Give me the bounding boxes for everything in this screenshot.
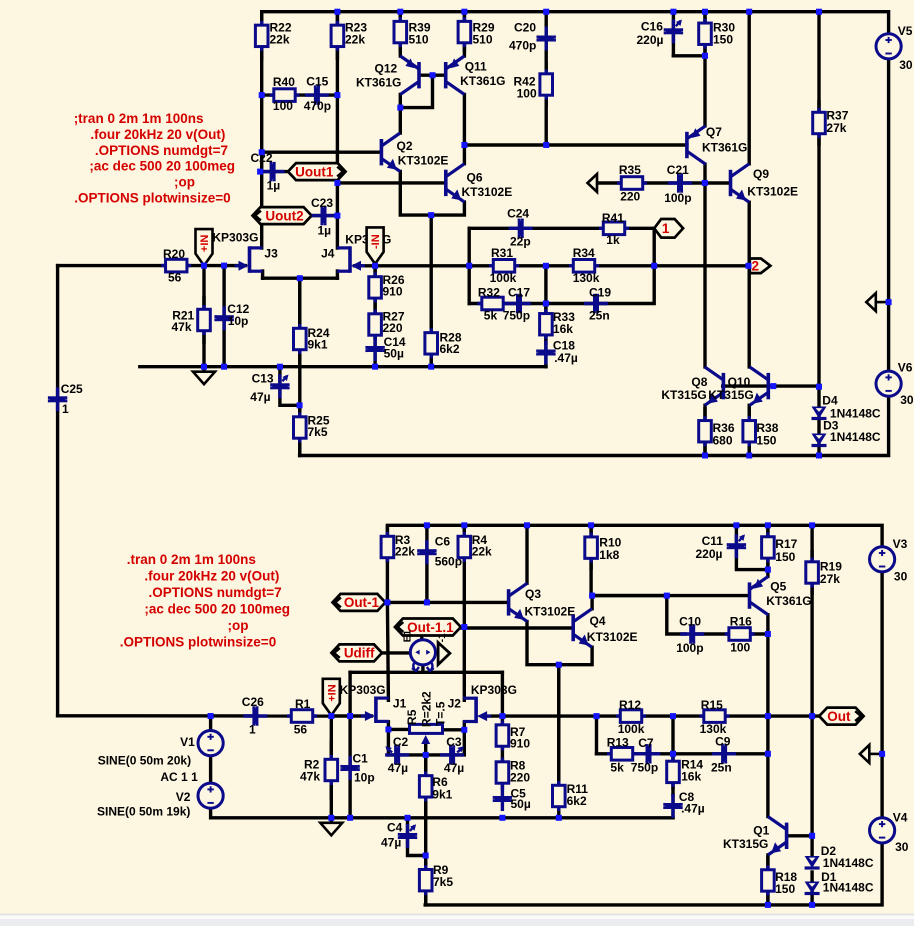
junction <box>201 263 207 269</box>
resistor R24 <box>294 278 330 367</box>
svg-text:1µ: 1µ <box>267 178 281 192</box>
junction <box>670 713 676 719</box>
junction <box>385 726 391 732</box>
capacitor C16 <box>637 19 684 47</box>
wire R39 to Q12 emitter <box>399 12 402 56</box>
svg-text:.OPTIONS numdgt=7: .OPTIONS numdgt=7 <box>95 143 228 158</box>
svg-text:22k: 22k <box>395 544 415 558</box>
wire top half ground rail <box>140 365 546 368</box>
wire D1 to bottom rail <box>810 872 813 905</box>
svg-text:150: 150 <box>756 433 776 447</box>
wire Q3 Q4 emitter rail <box>527 622 592 665</box>
wire Out-1.1 row to Q4 base <box>422 626 572 629</box>
capacitor C13 <box>250 372 289 404</box>
junction <box>334 9 340 15</box>
flag Out <box>819 708 863 725</box>
junction <box>461 522 467 528</box>
svg-text:R16: R16 <box>730 615 752 629</box>
junction <box>221 364 227 370</box>
junction <box>746 263 752 269</box>
wire C24 left riser <box>468 228 471 303</box>
wire R21 column <box>202 266 205 367</box>
diode D2 <box>805 844 874 870</box>
transistor Q6 <box>446 164 512 202</box>
junction <box>809 713 815 719</box>
svg-text:220µ: 220µ <box>696 547 723 561</box>
capacitor C22 <box>251 151 285 192</box>
flag +IN bottom <box>323 679 340 716</box>
wire R23 column <box>336 12 339 248</box>
svg-text:C7: C7 <box>638 736 654 750</box>
resistor R34 <box>569 246 600 285</box>
svg-text:.four 20kHz 20 v(Out): .four 20kHz 20 v(Out) <box>144 568 279 583</box>
resistor R13 <box>607 735 637 774</box>
transistor Q5 <box>750 576 812 614</box>
svg-text:R41: R41 <box>602 211 624 225</box>
svg-text:R20: R20 <box>163 247 185 261</box>
svg-text:2: 2 <box>752 259 760 274</box>
capacitor C1 <box>340 751 374 784</box>
svg-text:C9: C9 <box>715 734 731 748</box>
wire Q9 emitter to Q10 collector <box>748 202 751 367</box>
wire Q8 Q10 base row <box>723 384 819 387</box>
svg-text:47µ: 47µ <box>444 761 464 775</box>
wire Q11 collector to Q7 base <box>464 143 687 146</box>
capacitor C11 <box>696 534 747 561</box>
svg-text:V1: V1 <box>180 735 195 749</box>
svg-text:R5: R5 <box>405 709 419 725</box>
wire C1 column <box>348 716 351 818</box>
svg-text:+IN: +IN <box>326 684 338 701</box>
transistor Q1 <box>723 817 787 855</box>
resistor R33 <box>540 304 576 346</box>
svg-text:470p: 470p <box>304 99 331 113</box>
svg-text:47k: 47k <box>300 769 320 783</box>
JFET J4 <box>321 232 391 272</box>
wire R6 to C4 node <box>424 818 427 856</box>
svg-text:V5: V5 <box>898 24 913 38</box>
wire antenna to R35 to C21 <box>599 181 676 184</box>
svg-text:1µ: 1µ <box>318 223 332 237</box>
svg-text:R13: R13 <box>607 735 629 749</box>
svg-text:.OPTIONS plotwinsize=0: .OPTIONS plotwinsize=0 <box>120 634 276 649</box>
wire Q5 collector to Q1 collector <box>766 615 769 817</box>
junction <box>334 92 340 98</box>
svg-text:C20: C20 <box>514 20 536 34</box>
svg-text:220µ: 220µ <box>637 33 664 47</box>
svg-text:750p: 750p <box>503 309 530 323</box>
wire C10 loop <box>592 596 685 634</box>
svg-text:R34: R34 <box>573 246 595 260</box>
junction <box>765 567 771 573</box>
flag Udiff <box>331 644 382 661</box>
capacitor C19 <box>584 285 611 322</box>
svg-text:1k: 1k <box>606 233 620 247</box>
capacitor C12 <box>214 302 249 330</box>
wire R6 column <box>424 755 427 818</box>
svg-text:J2: J2 <box>448 697 462 711</box>
svg-text:KT3102E: KT3102E <box>398 154 449 168</box>
svg-text:V3: V3 <box>893 537 908 551</box>
wire R24 R25 column <box>298 278 301 455</box>
capacitor C23 <box>311 196 336 237</box>
svg-text:Uout2: Uout2 <box>265 208 303 223</box>
wire input rail to R20 to +IN <box>58 264 204 267</box>
svg-text:R=2k2: R=2k2 <box>420 691 434 727</box>
transistor Q7 <box>687 125 747 164</box>
resistor R42 <box>514 62 553 107</box>
capacitor C10 <box>676 615 704 656</box>
junction <box>461 624 467 630</box>
wire C22 to Uout1 <box>260 170 288 173</box>
svg-text:27k: 27k <box>826 121 846 135</box>
wire R36 column <box>703 405 706 455</box>
junction <box>430 72 436 78</box>
wire riser to +IN rail <box>348 672 351 716</box>
junction <box>384 599 390 605</box>
dependent source E1 <box>403 630 450 671</box>
capacitor C18 <box>536 338 578 365</box>
junction <box>334 213 340 219</box>
window bottom strip <box>0 914 914 927</box>
svg-text:C17: C17 <box>508 285 530 299</box>
wire R37 column <box>817 12 820 387</box>
resistor R21 <box>172 296 211 344</box>
ground bottom half <box>320 818 342 836</box>
svg-text:C2: C2 <box>393 735 409 749</box>
wire Q3 collector <box>525 525 528 583</box>
junction <box>259 92 265 98</box>
svg-text:KT315G: KT315G <box>723 837 768 851</box>
svg-text:Q7: Q7 <box>706 125 722 139</box>
wire J1 source down <box>387 729 390 755</box>
resistor R32 <box>478 285 508 322</box>
wire C13 branch <box>280 367 300 406</box>
junction <box>201 364 207 370</box>
junction <box>424 599 430 605</box>
resistor R40 <box>270 75 300 113</box>
svg-text:V2: V2 <box>176 790 191 804</box>
capacitor C9 <box>711 734 736 774</box>
wire Q12 collector to Q2 collector <box>399 94 402 133</box>
svg-text:C3: C3 <box>446 735 462 749</box>
svg-text:220: 220 <box>620 190 640 204</box>
resistor R28 <box>425 320 462 367</box>
svg-text:7k5: 7k5 <box>433 875 453 889</box>
junction <box>664 593 670 599</box>
flag Uout1 <box>288 163 346 180</box>
wire Q2 Q6 emitter rail <box>400 171 464 215</box>
resistor R4 <box>458 525 492 563</box>
resistor R2 <box>300 740 338 800</box>
voltage source V6 <box>876 360 914 407</box>
wire -IN node to R31 <box>375 264 469 267</box>
svg-text:47k: 47k <box>172 320 192 334</box>
wire bottom half V+ rail <box>387 525 882 547</box>
svg-text:KP303G: KP303G <box>471 683 517 697</box>
voltage source V2 <box>176 783 224 808</box>
resistor R1 <box>287 697 317 736</box>
svg-text:1N4148C: 1N4148C <box>830 430 881 444</box>
junction <box>277 364 283 370</box>
svg-text:470p: 470p <box>509 39 536 53</box>
wire to J1 gate <box>331 714 371 717</box>
flag net 2 <box>750 259 771 274</box>
svg-text:750p: 750p <box>631 760 658 774</box>
svg-text:V6: V6 <box>898 360 913 374</box>
wire C16 top column <box>672 12 675 56</box>
junction <box>221 263 227 269</box>
voltage source V4 <box>870 810 909 854</box>
wire V1 to V2 <box>209 757 212 783</box>
svg-text:910: 910 <box>510 736 530 750</box>
junction <box>543 301 549 307</box>
svg-text:6k2: 6k2 <box>440 342 460 356</box>
svg-text:+IN: +IN <box>199 235 211 252</box>
svg-text:-1: -1 <box>437 633 448 642</box>
wire bottom ground rail <box>211 809 673 818</box>
junction <box>543 142 549 148</box>
svg-text:KT3102E: KT3102E <box>747 185 798 199</box>
junction <box>543 9 549 15</box>
svg-text:.OPTIONS plotwinsize=0: .OPTIONS plotwinsize=0 <box>74 191 230 206</box>
svg-text:100: 100 <box>273 99 293 113</box>
svg-text:27k: 27k <box>820 572 840 586</box>
svg-text:Q3: Q3 <box>525 587 541 601</box>
svg-text:T=.5: T=.5 <box>434 701 448 726</box>
junction <box>428 212 434 218</box>
svg-text:47µ: 47µ <box>381 835 401 849</box>
svg-text:;ac dec 500 20 100meg: ;ac dec 500 20 100meg <box>144 601 290 616</box>
svg-text:KP303G: KP303G <box>340 683 386 697</box>
junction <box>423 752 429 758</box>
resistor R6 <box>419 755 452 818</box>
resistor R16 <box>725 615 755 655</box>
svg-text:Q12: Q12 <box>375 61 398 75</box>
wire E1 top pin <box>420 628 423 640</box>
wire Q1 base <box>788 834 812 837</box>
svg-text:25n: 25n <box>711 760 732 774</box>
svg-text:C1: C1 <box>353 751 369 765</box>
svg-text:.OPTIONS numdgt=7: .OPTIONS numdgt=7 <box>149 585 282 600</box>
wire R2 column <box>330 716 333 818</box>
capacitor C6 <box>417 534 462 568</box>
junction <box>809 522 815 528</box>
transistor Q12 <box>356 56 419 94</box>
svg-text:Q9: Q9 <box>753 167 769 181</box>
resistor R3 <box>381 525 415 563</box>
wire C6 column <box>425 525 428 602</box>
svg-text:;ac dec 500 20 100meg: ;ac dec 500 20 100meg <box>89 159 235 174</box>
wire bottom rail of top half <box>300 396 889 456</box>
svg-text:C25: C25 <box>61 382 83 396</box>
svg-text:130k: 130k <box>573 271 600 285</box>
svg-text:22k: 22k <box>270 33 290 47</box>
svg-text:KT315G: KT315G <box>661 388 706 402</box>
wire C8 column <box>671 795 674 818</box>
wire bottom input rail <box>58 714 332 718</box>
wire flag1 riser to C19 <box>546 228 654 303</box>
svg-text:Out-1: Out-1 <box>344 595 380 610</box>
svg-text:1: 1 <box>662 221 670 236</box>
junction <box>428 364 434 370</box>
junction <box>765 713 771 719</box>
svg-text:100: 100 <box>517 87 537 101</box>
junction <box>746 453 752 459</box>
wire to J2 gate node <box>501 672 504 716</box>
wire R4 column <box>463 525 466 628</box>
svg-text:1k8: 1k8 <box>599 548 619 562</box>
antenna flag left of R35 <box>588 174 611 192</box>
svg-text:50µ: 50µ <box>384 346 404 360</box>
junction <box>397 105 403 111</box>
svg-text:1: 1 <box>62 402 69 416</box>
wire to Q5 base <box>591 594 748 597</box>
svg-text:16k: 16k <box>553 322 573 336</box>
junction <box>816 453 822 459</box>
resistor R10 <box>585 525 622 570</box>
antenna flag V5 V6 column <box>866 293 889 311</box>
wire J4 gate <box>355 264 376 267</box>
wire R34 right <box>546 264 654 267</box>
svg-text:AC 1 1: AC 1 1 <box>160 770 198 784</box>
voltage source V5 <box>876 24 913 72</box>
svg-text:220: 220 <box>510 770 530 784</box>
flag net 1 <box>654 219 683 238</box>
wire R13 C7 row <box>597 752 674 755</box>
svg-text:SINE(0 50m 20k): SINE(0 50m 20k) <box>98 754 191 768</box>
svg-text:Q2: Q2 <box>397 139 413 153</box>
wire R32 C17 row <box>469 302 546 305</box>
svg-text:100p: 100p <box>676 641 703 655</box>
transistor Q4 <box>573 609 637 647</box>
resistor R37 <box>813 100 849 146</box>
junction <box>208 713 214 719</box>
junction <box>765 631 771 637</box>
wire R14 column <box>671 754 674 795</box>
wire Udiff to E1 <box>382 651 410 654</box>
resistor R18 <box>762 856 798 905</box>
junction <box>556 815 562 821</box>
wire Out-1 row to Q3 base <box>385 601 507 604</box>
svg-text:9k1: 9k1 <box>308 337 328 351</box>
wire C20 R42 column <box>545 12 548 145</box>
wire J4 source stub <box>336 271 339 278</box>
wire to Q6 base <box>337 181 444 184</box>
svg-text:C24: C24 <box>507 207 529 221</box>
wire V1 top <box>209 716 212 730</box>
wire long left column C25 <box>56 266 59 716</box>
resistor R14 <box>667 754 704 790</box>
junction <box>816 384 822 390</box>
junction <box>809 902 815 908</box>
transistor Q8 <box>661 367 723 405</box>
resistor R11 <box>553 665 589 818</box>
svg-text:R1: R1 <box>295 697 311 711</box>
svg-text:50µ: 50µ <box>511 797 531 811</box>
resistor R25 <box>294 405 330 455</box>
junction <box>589 593 595 599</box>
svg-text:KT3102E: KT3102E <box>587 630 638 644</box>
junction <box>499 815 505 821</box>
svg-text:.47µ: .47µ <box>554 351 578 365</box>
svg-text:Out-1.1: Out-1.1 <box>407 620 454 635</box>
resistor R23 <box>331 12 367 60</box>
diode D4 <box>812 394 881 421</box>
flag Uout2 <box>253 207 312 224</box>
capacitor C5 <box>493 786 531 811</box>
svg-text:9k1: 9k1 <box>432 787 452 801</box>
svg-text:100k: 100k <box>490 271 517 285</box>
svg-text:1: 1 <box>249 722 256 736</box>
svg-text:910: 910 <box>383 284 403 298</box>
svg-text:SINE(0 50m 19k): SINE(0 50m 19k) <box>97 804 190 818</box>
JFET J1 <box>361 697 407 724</box>
junction <box>765 902 771 908</box>
svg-text:10p: 10p <box>228 314 249 328</box>
wire Out-1 to J1 drain column <box>387 602 388 700</box>
wire Q7 collector to Q8 collector <box>703 164 706 367</box>
svg-text:-IN: -IN <box>370 234 382 249</box>
svg-text:22k: 22k <box>472 544 492 558</box>
svg-text:C19: C19 <box>589 285 611 299</box>
junction <box>347 713 353 719</box>
transistor Q10 <box>708 367 768 405</box>
svg-text:R12: R12 <box>619 698 641 712</box>
resistor R19 <box>806 550 842 595</box>
junction <box>702 9 708 15</box>
svg-text:;op: ;op <box>228 618 249 633</box>
svg-text:100k: 100k <box>618 722 645 736</box>
resistor R39 <box>394 12 431 53</box>
svg-text:KT315G: KT315G <box>708 388 753 402</box>
resistor R12 <box>616 698 646 736</box>
wire to Out flag <box>768 714 818 717</box>
wire top rail to Q9 collector <box>748 12 751 164</box>
junction <box>702 180 708 186</box>
wire E1 bottom row <box>350 671 502 674</box>
junction <box>461 142 467 148</box>
junction <box>397 9 403 15</box>
resistor R27 <box>369 309 405 340</box>
svg-text:47µ: 47µ <box>388 761 408 775</box>
junction <box>461 9 467 15</box>
svg-text:Uout1: Uout1 <box>295 164 334 179</box>
svg-text:KT361G: KT361G <box>702 140 747 154</box>
capacitor C21 <box>664 163 692 205</box>
resistor R17 <box>762 525 798 569</box>
capacitor C24 <box>507 207 533 249</box>
junction <box>297 402 303 408</box>
voltage source V1 <box>180 731 223 756</box>
svg-text:Q8: Q8 <box>691 375 707 389</box>
svg-text:;tran 0 2m 1m 100ns: ;tran 0 2m 1m 100ns <box>74 111 204 126</box>
wire V3 to V4 column <box>880 572 883 818</box>
wire R16 to Q5 collector <box>694 632 768 635</box>
wire R29 to Q11 emitter <box>463 12 466 56</box>
svg-text:R40: R40 <box>273 75 295 89</box>
svg-text:C4: C4 <box>387 821 403 835</box>
svg-text:30: 30 <box>899 58 913 72</box>
junction <box>588 522 594 528</box>
svg-text:150: 150 <box>775 550 795 564</box>
junction <box>670 9 676 15</box>
junction <box>424 522 430 528</box>
svg-text:R15: R15 <box>701 698 723 712</box>
wire Q12 collector to base loop <box>400 75 432 107</box>
junction <box>334 180 340 186</box>
svg-text:J1: J1 <box>393 697 407 711</box>
